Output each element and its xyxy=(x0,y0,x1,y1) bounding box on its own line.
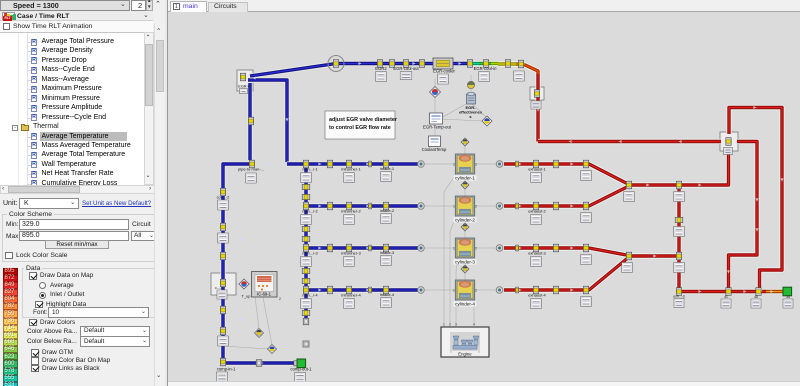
selection box around EGR valve xyxy=(237,70,253,91)
data group xyxy=(24,265,42,272)
link cylinder sensors xyxy=(464,146,466,154)
EGR cooler block xyxy=(433,58,453,69)
svg-text:1: 1 xyxy=(443,323,445,327)
value box EGR-cool-in data xyxy=(479,72,490,82)
label EGR-cool-in xyxy=(474,66,497,71)
set unit link xyxy=(82,200,151,207)
label comp-in-1 xyxy=(217,367,236,372)
wire intake runner 1 xyxy=(306,161,418,166)
wire intake runner 2 xyxy=(306,203,418,208)
svg-text:s: s xyxy=(469,114,472,119)
intercooler IC-69-1 xyxy=(252,272,282,302)
exhaust-1 conn xyxy=(533,160,538,168)
label intrunner-1 label xyxy=(341,167,361,172)
selection box around turbine xyxy=(720,132,738,151)
value box exhaust-3 data xyxy=(531,257,542,267)
cooler out conn xyxy=(467,60,472,68)
intake conn a3 xyxy=(327,244,332,252)
svg-text:EGR-Temp-out: EGR-Temp-out xyxy=(423,125,452,130)
svg-text:cou...-2: cou...-2 xyxy=(217,196,230,200)
wire exhaust runner 4 xyxy=(504,257,629,290)
color bar legend xyxy=(3,268,18,275)
wire EGR cooled cyan segment xyxy=(468,61,479,66)
exh conn c3 xyxy=(583,244,588,252)
exhaust port 3 xyxy=(496,245,503,252)
man conn b3 xyxy=(302,278,310,283)
exh conn c2 xyxy=(583,202,588,210)
svg-text:exhaust-1: exhaust-1 xyxy=(528,167,546,172)
svg-text:adjust EGR valve diameter: adjust EGR valve diameter xyxy=(329,117,398,123)
cylinder cylinder-3 xyxy=(453,238,477,265)
svg-text:exh...-3: exh...-3 xyxy=(673,295,684,299)
svg-text:intrunner-2: intrunner-2 xyxy=(341,209,361,214)
svg-text:4: 4 xyxy=(473,323,475,327)
wire exhaust crosslink xyxy=(676,185,681,256)
muffler conn 1 xyxy=(726,288,731,296)
intake-2 xyxy=(383,202,388,210)
map canvas xyxy=(168,12,800,386)
svg-text:3: 3 xyxy=(455,323,457,327)
svg-text:man...r-2: man...r-2 xyxy=(302,210,317,214)
svg-text:1: 1 xyxy=(453,163,455,167)
manifold junction 2 xyxy=(303,202,308,210)
value box exh end data xyxy=(783,299,793,308)
value box junction lower data xyxy=(674,263,685,273)
wire exhaust runner 3 xyxy=(504,248,629,256)
wire EGR hot to turbine xyxy=(538,139,721,144)
label man-label-4 xyxy=(302,294,317,298)
throttle xyxy=(333,60,338,68)
wire exhaust downpipe xyxy=(679,256,766,292)
note box EGR xyxy=(325,111,398,139)
tree h-scrollbar xyxy=(0,185,156,194)
label EGR-effectiveness l2 xyxy=(459,110,483,115)
wire compressor inlet bottom xyxy=(223,360,298,365)
value box EGR-cooler data xyxy=(438,74,449,84)
turbine xyxy=(726,138,731,146)
color scheme group xyxy=(7,211,54,218)
value box man-pipe-4 data xyxy=(301,299,312,309)
intake-3 xyxy=(383,244,388,252)
wire turbine out B xyxy=(729,142,758,292)
exh conn s4 xyxy=(515,287,518,293)
intake conn a1 xyxy=(327,160,332,168)
label intrunner-3 label xyxy=(341,251,361,256)
wire exhaust runner 1 xyxy=(504,164,629,185)
speed combo xyxy=(0,0,130,11)
muffler conn 2 xyxy=(756,288,761,296)
intake conn s3 xyxy=(368,245,371,251)
sensor cyl sensor 2 xyxy=(461,181,469,189)
exh conn b2 xyxy=(553,202,558,210)
label EGR valve name xyxy=(238,85,249,89)
svg-text:EGR-cooler: EGR-cooler xyxy=(433,69,455,74)
man conn b2 xyxy=(302,236,310,241)
label exh end label xyxy=(786,295,790,299)
exhaust port 1 xyxy=(496,161,503,168)
value box muffler 1 data xyxy=(721,299,731,308)
RLT icon xyxy=(2,12,15,21)
value box exhaust-1 data xyxy=(531,173,542,183)
label man-label-2 xyxy=(302,210,317,214)
manifold junction 3 xyxy=(303,244,308,252)
exhaust-2 conn xyxy=(533,202,538,210)
EGR valve V1 xyxy=(240,73,245,81)
cylinder cylinder-1 xyxy=(453,154,477,181)
value box comp-in conn data xyxy=(218,336,229,346)
value box EGR hot valve data xyxy=(531,101,541,109)
value box intrunner-4 data xyxy=(344,299,355,309)
svg-text:exhaust-2: exhaust-2 xyxy=(528,209,546,214)
coupling a xyxy=(220,188,225,196)
value box exhaust-4 data xyxy=(531,299,542,309)
downpipe corner xyxy=(676,288,681,296)
wire EGR line sloped xyxy=(250,64,336,77)
intake-1 xyxy=(383,160,388,168)
label EGR-cooler xyxy=(433,69,455,74)
svg-text:1: 1 xyxy=(453,205,455,209)
exh conn c4 xyxy=(583,286,588,294)
reset button xyxy=(45,240,109,249)
value box intrunner-3 data xyxy=(344,257,355,267)
svg-text:2: 2 xyxy=(475,163,477,167)
wire manifold feed xyxy=(287,161,306,166)
svg-text:34: 34 xyxy=(786,295,790,299)
RLT tree xyxy=(0,32,146,185)
svg-text:comp-in-1: comp-in-1 xyxy=(217,367,236,372)
CoolantTemp gauge xyxy=(429,136,441,147)
intake conn s1 xyxy=(368,161,371,167)
label exhaust-3 label xyxy=(528,251,546,256)
svg-text:2: 2 xyxy=(279,297,281,301)
sensor cyl sensor 3 xyxy=(461,223,469,231)
env comp-out-1 xyxy=(294,359,306,368)
value box coupling-2 data xyxy=(218,200,229,210)
tree scrollbar xyxy=(144,32,154,185)
label downpipe corner label xyxy=(673,295,684,299)
coupling b xyxy=(220,223,225,231)
svg-text:cylinder-1: cylinder-1 xyxy=(455,176,475,181)
label muffler 1 label xyxy=(724,295,728,299)
svg-text:1: 1 xyxy=(453,247,455,251)
intake conn a2 xyxy=(327,202,332,210)
svg-text:exhaust-4: exhaust-4 xyxy=(528,293,546,298)
value box exh c1 data xyxy=(581,171,592,181)
link sensor chain EGR xyxy=(434,79,436,113)
intake conn s4 xyxy=(368,287,371,293)
comp-in corner xyxy=(220,358,225,366)
svg-text:intake-1: intake-1 xyxy=(380,166,395,171)
value box merge 3-4 data xyxy=(622,263,633,273)
wire EGR yellow segment xyxy=(498,61,516,66)
wire intake from EGR valve down xyxy=(247,83,252,160)
value box exhaust-2 data xyxy=(531,215,542,225)
svg-text:comp-out-1: comp-out-1 xyxy=(290,367,312,372)
value box muffler 2 data xyxy=(751,299,761,308)
manifold tail xyxy=(303,341,309,347)
intake port 3 xyxy=(418,245,425,252)
intake conn a4 xyxy=(327,286,332,294)
lock color scale xyxy=(5,252,13,260)
exh conn s3 xyxy=(515,245,518,251)
svg-text:intrunner-4: intrunner-4 xyxy=(341,293,361,298)
exh conn b1 xyxy=(553,160,558,168)
svg-text:intake-3: intake-3 xyxy=(380,250,395,255)
left control panel xyxy=(0,0,167,386)
value box EGR valve data xyxy=(240,89,248,94)
label EGR-effectiveness l1 xyxy=(466,105,477,110)
wire EGR orange segment xyxy=(516,61,524,67)
throttle circle xyxy=(328,56,344,72)
coupling c xyxy=(220,252,225,260)
EGR conn3 xyxy=(505,60,510,68)
EGR conn2 xyxy=(419,60,424,68)
label intake-3 label xyxy=(380,250,395,255)
EGR-Temp-out gauge xyxy=(430,113,443,124)
svg-text:intake-4: intake-4 xyxy=(380,292,395,297)
svg-text:EGR-cool-out: EGR-cool-out xyxy=(393,66,419,71)
intake port 2 xyxy=(418,203,425,210)
sensor EGR sensor B xyxy=(482,116,492,126)
selection box around EGR hot valve xyxy=(530,87,544,100)
value box intake-1 data xyxy=(381,172,392,182)
wire exhaust merged 1-2 xyxy=(629,182,679,187)
manifold junction 4 xyxy=(303,286,308,294)
exhaust port 4 xyxy=(496,287,503,294)
intrunner-3 xyxy=(346,244,351,252)
exhaust port 2 xyxy=(496,203,503,210)
link cylinders to engine xyxy=(444,174,456,326)
intrunner-2 xyxy=(346,202,351,210)
man conn a2 xyxy=(302,226,310,231)
EGR hot valve xyxy=(534,90,539,98)
pipe conn v2 xyxy=(220,306,225,314)
intake-4 xyxy=(383,286,388,294)
exhaust merge 3-4 xyxy=(626,252,631,260)
man conn a4 xyxy=(302,310,310,315)
svg-text:CoolantTemp: CoolantTemp xyxy=(422,147,447,152)
wire EGR yellow-green segment xyxy=(491,61,498,66)
label intake-2 label xyxy=(380,208,395,213)
exhaust merge 1-2 xyxy=(626,181,631,189)
label man-label-3 xyxy=(302,252,317,256)
exhaust-3 conn xyxy=(533,244,538,252)
tab circuits xyxy=(208,2,248,13)
value box pipe-to-man data xyxy=(246,173,257,183)
unit selector xyxy=(3,200,17,207)
man conn a1 xyxy=(302,184,310,189)
sensor EGR sensor A xyxy=(430,87,441,98)
cross conn xyxy=(675,217,683,222)
value box EGR-cool-out data xyxy=(400,72,412,80)
svg-text:intake-2: intake-2 xyxy=(380,208,395,213)
svg-text:2: 2 xyxy=(475,205,477,209)
svg-text:EGR2: EGR2 xyxy=(375,66,387,71)
value box downpipe corner data xyxy=(674,299,684,308)
wire EGR green segment xyxy=(479,61,491,66)
wire exhaust runner 2 xyxy=(504,186,629,206)
label exhaust-1 label xyxy=(528,167,546,172)
svg-text:cylinder-2: cylinder-2 xyxy=(455,218,475,223)
wire EGR hot vertical xyxy=(535,74,540,142)
svg-text:man...r-3: man...r-3 xyxy=(302,252,317,256)
wire exhaust to turbine xyxy=(679,150,729,185)
pipe conn v1 xyxy=(248,117,253,125)
intrunner-4 xyxy=(346,286,351,294)
value box coupling b data xyxy=(218,233,229,243)
label EGR-Temp-out xyxy=(423,125,452,130)
svg-text:45: 45 xyxy=(754,295,758,299)
value box comp-out data xyxy=(295,373,306,382)
sensor EGR circle xyxy=(467,81,474,88)
wire intake runner 4 xyxy=(306,287,418,292)
splitter xyxy=(165,0,168,386)
label exhaust-2 label xyxy=(528,209,546,214)
exhaust-4 conn xyxy=(533,286,538,294)
exh conn c1 xyxy=(583,160,588,168)
svg-text:c...-1: c...-1 xyxy=(215,286,223,290)
exh conn s1 xyxy=(515,161,518,167)
show animation checkbox xyxy=(0,21,153,32)
spinner value 2 xyxy=(131,0,146,11)
value box man-pipe-3 data xyxy=(301,257,312,267)
EGR-cool-out orifice xyxy=(403,60,408,68)
label comp-out-1 xyxy=(290,367,312,372)
exhaust junction lower xyxy=(676,252,681,260)
wire exhaust merged 3-4 xyxy=(629,253,679,258)
exhaust junction upper xyxy=(676,181,681,189)
label pipe-to-man xyxy=(238,167,264,172)
value box EGR2 data xyxy=(376,72,387,82)
svg-text:EGR-v: EGR-v xyxy=(238,85,249,89)
label CoolantTemp xyxy=(422,147,447,152)
value box EGR hot data xyxy=(514,71,525,81)
svg-text:man...r-4: man...r-4 xyxy=(302,294,317,298)
panel scrollbar xyxy=(154,24,165,386)
selection box around compressor xyxy=(211,273,236,295)
link intake ports to cylinders xyxy=(425,163,455,165)
value box cross conn data xyxy=(674,227,685,237)
svg-text:Engine: Engine xyxy=(458,351,472,356)
value box intrunner-1 data xyxy=(344,173,355,183)
svg-text:to control EGR flow rate: to control EGR flow rate xyxy=(329,125,391,131)
svg-text:1: 1 xyxy=(453,289,455,293)
pipe-to-man xyxy=(249,160,254,168)
value box exh c3 data xyxy=(581,255,592,265)
value box intrunner-2 data xyxy=(344,215,355,225)
intake conn s2 xyxy=(368,203,371,209)
value box turbine data xyxy=(724,148,733,155)
env exhaust end xyxy=(783,287,792,296)
value box man-pipe-1 data xyxy=(301,173,312,183)
svg-text:man...r-1: man...r-1 xyxy=(302,168,317,172)
compressor xyxy=(220,279,225,287)
intake port 1 xyxy=(418,161,425,168)
label intake-4 label xyxy=(380,292,395,297)
label man-label-1 xyxy=(302,168,317,172)
value box intake-3 data xyxy=(381,256,392,266)
exh conn b4 xyxy=(553,286,558,294)
label exhaust-4 label xyxy=(528,293,546,298)
wire intake runner 3 xyxy=(306,245,418,250)
tab bar xyxy=(168,0,800,12)
exh conn s2 xyxy=(515,203,518,209)
label intrunner-2 label xyxy=(341,209,361,214)
value box compressor data xyxy=(217,290,227,299)
svg-text:T_up: T_up xyxy=(242,294,251,299)
wire EGR top run xyxy=(336,61,468,66)
tab main xyxy=(170,1,207,13)
sensor sensor L2 xyxy=(268,345,277,354)
sensor cyl sensor 1 xyxy=(461,138,469,146)
cylinder cylinder-2 xyxy=(453,196,477,223)
svg-text:IC-69-1: IC-69-1 xyxy=(257,292,272,297)
wire tailpipe orange xyxy=(766,289,783,294)
intake port 4 xyxy=(418,287,425,294)
bottom mid conn xyxy=(256,360,262,367)
svg-text:2: 2 xyxy=(475,289,477,293)
sensor cyl sensor 4 xyxy=(461,265,469,273)
wire intake manifold vertical xyxy=(303,164,308,321)
label intrunner-4 label xyxy=(341,293,361,298)
wire EGR valve to manifold xyxy=(248,80,287,162)
EGR-cool-in orifice xyxy=(483,60,488,68)
value box man-pipe-2 data xyxy=(301,215,312,225)
case/time RLT row xyxy=(0,11,153,21)
canvas h-scrollbar xyxy=(168,381,800,386)
manifold end xyxy=(303,318,309,325)
manifold junction 1 xyxy=(303,160,308,168)
svg-text:intrunner-3: intrunner-3 xyxy=(341,251,361,256)
intrunner-1 xyxy=(346,160,351,168)
label EGR-effectiveness l3 xyxy=(469,114,472,119)
svg-text:cylinder-4: cylinder-4 xyxy=(455,302,475,307)
EGR hot conn xyxy=(518,60,523,68)
svg-text:41: 41 xyxy=(724,295,728,299)
value box intake-2 data xyxy=(381,214,392,224)
cylinder cylinder-4 xyxy=(453,280,477,307)
svg-text:2: 2 xyxy=(475,247,477,251)
EGR2 orifice xyxy=(377,60,382,68)
EGR conn xyxy=(389,60,394,68)
svg-text:2: 2 xyxy=(449,323,451,327)
flow arrows xyxy=(240,62,784,365)
label coupling-2 xyxy=(217,196,230,200)
EGR-effectiveness block xyxy=(467,93,476,105)
label intake-1 label xyxy=(380,166,395,171)
value box exh c2 data xyxy=(581,213,592,223)
svg-text:intrunner-1: intrunner-1 xyxy=(341,167,361,172)
svg-text:EGR-cool-in: EGR-cool-in xyxy=(474,66,497,71)
exh conn b3 xyxy=(553,244,558,252)
sensor sensor L1 xyxy=(255,329,264,338)
value box merge 1-2 data xyxy=(624,192,635,202)
svg-text:exhaust-3: exhaust-3 xyxy=(528,251,546,256)
wire pipe-to-man left leg xyxy=(223,164,252,361)
value box junction upper data xyxy=(674,192,685,202)
value box exh c4 data xyxy=(581,297,592,307)
label muffler 2 label xyxy=(754,295,758,299)
wire EGR hot diagonal xyxy=(524,65,538,77)
value box intake-4 data xyxy=(381,298,392,308)
engine block xyxy=(441,323,489,358)
label EGR-cool-out xyxy=(393,66,419,71)
man conn a3 xyxy=(302,268,310,273)
link compressor sensors xyxy=(236,283,240,285)
comp-in conn xyxy=(220,327,225,335)
value box comp-in data xyxy=(217,372,228,385)
svg-text:cylinder-3: cylinder-3 xyxy=(455,260,475,265)
